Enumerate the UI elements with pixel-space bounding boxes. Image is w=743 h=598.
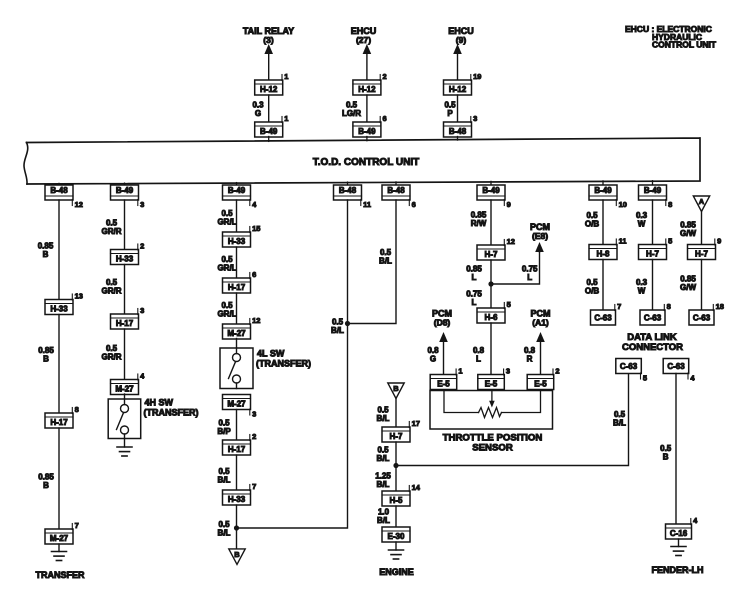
label 0.75 L: [522, 265, 538, 283]
svg-text:11: 11: [363, 200, 371, 209]
node PCM (A1): [531, 309, 551, 328]
node EHCU (27): [351, 26, 377, 45]
wire B-48/12 to H-33/13: [58, 200, 60, 300]
label 0.85 G/W: [680, 221, 696, 239]
arrow to PCM (E8): [535, 242, 544, 252]
wire B-49/8 to H-7/5: [652, 200, 654, 245]
svg-text:H-7: H-7: [646, 249, 659, 258]
svg-text:B/L: B/L: [331, 326, 344, 335]
svg-text:3: 3: [506, 366, 510, 375]
svg-text:GR/L: GR/L: [217, 310, 236, 319]
arrow to EHCU 27: [363, 44, 372, 80]
connector E-5 pin 1: [430, 366, 462, 389]
svg-text:12: 12: [75, 200, 83, 209]
connector H-33 pin 2: [111, 241, 145, 264]
svg-text:L: L: [476, 355, 481, 364]
svg-text:H-6: H-6: [485, 313, 498, 322]
junction on B-48/11 riser: [345, 321, 350, 326]
svg-text:17: 17: [412, 419, 420, 428]
node PCM (E8): [530, 222, 550, 241]
svg-text:7: 7: [617, 302, 621, 311]
svg-text:M-27: M-27: [227, 329, 246, 338]
svg-text:TRANSFER: TRANSFER: [36, 570, 85, 580]
switch 4H SW (TRANSFER): [108, 399, 141, 439]
connector B-49 pin 9: [477, 185, 511, 209]
svg-text:4: 4: [690, 373, 695, 382]
label 0.5 GR/R: [102, 278, 122, 296]
label 0.3 G: [252, 101, 264, 119]
connector H-17 pin 2: [223, 432, 257, 455]
svg-text:GR/R: GR/R: [102, 227, 122, 236]
connector B-49 pin 4: [223, 185, 258, 209]
svg-text:H-33: H-33: [228, 237, 246, 246]
svg-text:L: L: [472, 273, 477, 282]
label 0.5 B/L: [331, 318, 344, 336]
svg-text:L: L: [527, 273, 532, 282]
net B triangle (engine column): [388, 383, 404, 399]
svg-text:1: 1: [284, 72, 288, 81]
wire H-5 to E-30: [395, 506, 397, 527]
connector E-5 pin 2: [527, 366, 559, 389]
svg-text:H-5: H-5: [390, 496, 403, 505]
wire H-33 to triangle B: [236, 505, 238, 549]
svg-text:B-49: B-49: [358, 127, 376, 136]
svg-text:B/L: B/L: [377, 454, 390, 463]
label 0.5 GR/L: [217, 301, 236, 319]
svg-text:4L SW: 4L SW: [257, 349, 285, 359]
connector B-48 pin 6: [382, 185, 416, 209]
sensor internal wiring: [444, 391, 541, 413]
svg-text:L: L: [472, 298, 477, 307]
svg-text:B-49: B-49: [116, 186, 134, 195]
label 0.5 LG/R: [342, 101, 361, 119]
connector H-17 pin 3: [111, 306, 145, 329]
svg-text:C-63: C-63: [667, 362, 685, 371]
svg-text:LG/R: LG/R: [342, 109, 361, 118]
connector B-48 pin 11: [334, 185, 372, 209]
wire triangle A to H-7/9: [701, 212, 703, 245]
wire triangle B to H-7/17: [395, 399, 397, 428]
svg-text:B/P: B/P: [217, 427, 231, 436]
svg-text:O/B: O/B: [585, 220, 599, 229]
wire H-33 to H-17: [58, 315, 60, 414]
svg-text:C-63: C-63: [644, 314, 662, 323]
wire H-7 to C-63/18: [701, 260, 703, 311]
label 0.5 GR/L: [217, 209, 236, 227]
connector H-33 pin 15: [223, 224, 261, 247]
svg-text:(27): (27): [356, 35, 371, 45]
svg-text:E-5: E-5: [437, 379, 450, 388]
svg-text:5: 5: [668, 236, 672, 245]
label 0.8 G: [427, 346, 439, 364]
connector C-16 pin 4: [666, 516, 699, 539]
svg-text:(TRANSFER): (TRANSFER): [256, 359, 311, 369]
label 0.5 P: [444, 101, 456, 119]
label 0.5 B/P: [217, 419, 231, 437]
connector H-17 pin 8: [45, 405, 79, 428]
label 0.75 L: [466, 290, 482, 308]
wire to ground: [58, 544, 60, 552]
wire M-27 to 4L SW: [236, 339, 238, 349]
wire H-8 to C-63/7: [602, 260, 604, 311]
connector B-48 pin 3: [444, 114, 478, 137]
connector C-63 pin 8: [640, 302, 671, 325]
svg-text:R: R: [527, 355, 533, 364]
stubs connecting connectors to control unit: [59, 137, 653, 187]
svg-text:9: 9: [507, 200, 511, 209]
wire 0.5 LG/R: [366, 95, 368, 122]
svg-text:B: B: [43, 250, 49, 259]
svg-text:H-12: H-12: [260, 85, 278, 94]
connector E-30: [382, 527, 410, 542]
svg-text:(E8): (E8): [532, 231, 548, 241]
svg-text:A: A: [699, 197, 705, 206]
svg-text:H-12: H-12: [449, 85, 467, 94]
wire H-17 to M-27: [236, 293, 238, 324]
connector H-33 pin 7: [223, 482, 257, 505]
svg-text:14: 14: [412, 483, 421, 492]
svg-text:1: 1: [284, 114, 288, 123]
svg-text:B-49: B-49: [228, 186, 246, 195]
wire H-17 to M-27: [58, 428, 60, 529]
label 0.85 R/W: [471, 211, 487, 229]
label 0.5 B/L: [377, 406, 390, 424]
label 0.85 B: [38, 346, 54, 364]
label 0.85 G/W: [680, 275, 696, 293]
svg-text:E-5: E-5: [485, 379, 498, 388]
svg-text:CONNECTOR: CONNECTOR: [622, 342, 683, 353]
wire junction to C-63/5: [396, 374, 629, 466]
svg-text:B-48: B-48: [339, 186, 357, 195]
svg-text:B/L: B/L: [377, 516, 390, 525]
T.O.D. CONTROL UNIT box: [24, 138, 700, 184]
svg-text:4: 4: [693, 516, 698, 525]
svg-text:GR/R: GR/R: [102, 287, 122, 296]
wire 0.5 P: [457, 95, 459, 122]
wire branch to PCM E8: [491, 250, 540, 284]
wire H-33 to H-17: [124, 265, 126, 315]
wiper arrow: [489, 391, 495, 408]
connector C-63 pin 7: [591, 302, 622, 325]
wire B-48/6 down and left: [348, 200, 397, 324]
label 0.5 O/B: [585, 211, 599, 229]
svg-text:6: 6: [252, 270, 256, 279]
label 0.5 GR/L: [217, 255, 236, 273]
svg-text:B/L: B/L: [218, 476, 231, 485]
svg-text:ENGINE: ENGINE: [379, 567, 414, 577]
connector H-17 pin 6: [223, 270, 257, 293]
wire 0.3 G: [268, 95, 270, 122]
svg-text:3: 3: [252, 409, 256, 418]
connector M-27 pin 12: [223, 316, 261, 339]
switch 4L SW (TRANSFER): [220, 348, 253, 389]
label 0.5 B/L: [379, 248, 392, 266]
wire M-27 to H-17/2: [236, 410, 238, 441]
connector B-49 pin 10: [589, 185, 627, 209]
svg-text:E-5: E-5: [534, 379, 547, 388]
wire M-27 to 4H SW: [124, 394, 126, 399]
svg-text:2: 2: [383, 72, 387, 81]
connector H-33 pin 13: [45, 291, 83, 314]
label 0.5 B: [660, 444, 672, 462]
label 0.5 B/L: [613, 410, 626, 428]
label 0.5 B/L: [218, 467, 231, 485]
svg-text:5: 5: [507, 300, 511, 309]
svg-text:8: 8: [75, 405, 79, 414]
svg-text:2: 2: [555, 366, 559, 375]
label 0.8 R: [524, 346, 536, 364]
svg-text:GR/L: GR/L: [217, 264, 236, 273]
label 0.5 B/L: [218, 520, 231, 538]
wire H-6 to E-5/3: [490, 323, 492, 375]
svg-text:H-12: H-12: [358, 85, 376, 94]
wire B-49/10 to H-8/11: [602, 200, 604, 245]
connector M-27 pin 3: [223, 395, 257, 419]
svg-text:M-27: M-27: [115, 384, 134, 393]
svg-text:G/W: G/W: [680, 283, 696, 292]
svg-text:FENDER-LH: FENDER-LH: [652, 565, 704, 575]
svg-text:(D8): (D8): [434, 318, 451, 328]
svg-text:B-48: B-48: [387, 186, 405, 195]
svg-text:1: 1: [458, 366, 462, 375]
label 0.5 O/B: [585, 278, 599, 296]
svg-text:(A1): (A1): [532, 318, 549, 328]
svg-text:B: B: [43, 481, 49, 490]
svg-text:H-7: H-7: [695, 249, 708, 258]
svg-text:GR/L: GR/L: [217, 218, 236, 227]
svg-text:4: 4: [252, 200, 257, 209]
wire H-7 to H-6: [490, 260, 492, 308]
svg-text:3: 3: [140, 306, 144, 315]
svg-text:6: 6: [412, 200, 416, 209]
svg-text:C-63: C-63: [693, 314, 711, 323]
svg-text:7: 7: [75, 521, 79, 530]
label 1.0 B/L: [377, 508, 390, 526]
connector H-7 pin 9: [688, 236, 722, 259]
ground ENGINE: [389, 550, 404, 559]
label 0.85 B: [38, 473, 54, 491]
svg-text:18: 18: [716, 302, 724, 311]
wire to fender ground: [678, 539, 680, 547]
svg-text:C-63: C-63: [594, 314, 612, 323]
svg-text:9: 9: [717, 236, 721, 245]
label 1.25 B/L: [375, 472, 391, 490]
svg-text:B-49: B-49: [644, 186, 662, 195]
svg-text:P: P: [447, 109, 453, 118]
svg-text:W: W: [638, 287, 646, 296]
connector H-12 pin 2: [353, 72, 387, 95]
svg-text:CONTROL UNIT: CONTROL UNIT: [652, 40, 717, 50]
arrow to TAIL RELAY: [264, 44, 273, 80]
label THROTTLE POSITION SENSOR: [443, 433, 543, 454]
wire H-7 to H-5: [395, 442, 397, 491]
svg-text:12: 12: [252, 316, 260, 325]
svg-text:G: G: [430, 355, 436, 364]
wire 4H SW to ground: [124, 439, 126, 448]
svg-text:7: 7: [252, 482, 256, 491]
node EHCU (9): [448, 26, 474, 45]
svg-text:B-48: B-48: [50, 186, 68, 195]
svg-text:M-27: M-27: [50, 534, 69, 543]
connector B-49 pin 6: [353, 114, 387, 137]
svg-text:SENSOR: SENSOR: [472, 443, 513, 454]
connector H-7 pin 5: [639, 236, 673, 259]
legend EHCU definition: [625, 24, 717, 50]
svg-text:O/B: O/B: [585, 287, 599, 296]
wire H-33 to H-17: [236, 247, 238, 278]
svg-text:H-33: H-33: [228, 495, 246, 504]
svg-text:13: 13: [75, 291, 83, 300]
svg-text:H-8: H-8: [597, 249, 610, 258]
connector M-27 pin 4: [111, 371, 146, 394]
svg-text:H-7: H-7: [390, 432, 403, 441]
connector H-7 pin 12: [477, 237, 515, 260]
svg-text:H-33: H-33: [50, 304, 68, 313]
svg-text:B-49: B-49: [482, 186, 500, 195]
connector H-5 pin 14: [382, 483, 421, 506]
junction PCM E8 branch: [488, 281, 493, 286]
svg-text:W: W: [638, 220, 646, 229]
svg-text:B: B: [393, 384, 399, 393]
svg-text:10: 10: [619, 200, 627, 209]
svg-text:B: B: [43, 355, 49, 364]
net A triangle: [693, 196, 709, 212]
svg-text:H-17: H-17: [50, 418, 68, 427]
wire junction to B-48/11 riser: [237, 200, 348, 528]
svg-text:4H SW: 4H SW: [145, 398, 174, 408]
junction engine column to DLC branch: [393, 463, 398, 468]
svg-text:B: B: [663, 453, 669, 462]
connector C-63 pin 4: [663, 359, 695, 383]
svg-text:B/L: B/L: [613, 419, 626, 428]
ground FENDER-LH: [671, 547, 686, 556]
wire B-49/9 to H-7/12: [490, 200, 492, 245]
svg-text:8: 8: [667, 302, 671, 311]
ground TRANSFER: [52, 552, 67, 561]
wire C-63/4 to C-16: [675, 374, 677, 525]
net B triangle (lower left): [229, 549, 245, 565]
svg-text:15: 15: [252, 224, 260, 233]
svg-text:12: 12: [507, 237, 515, 246]
connector H-8 pin 11: [589, 236, 627, 259]
svg-text:(3): (3): [263, 35, 274, 45]
svg-text:19: 19: [473, 72, 481, 81]
svg-text:8: 8: [668, 200, 672, 209]
wire H-7 to C-63/8: [652, 260, 654, 311]
svg-text:G/W: G/W: [680, 229, 696, 238]
ground 4H SW: [117, 447, 132, 456]
svg-text:B-49: B-49: [260, 127, 278, 136]
connector E-5 pin 3: [478, 366, 510, 389]
connector H-12 pin 19: [444, 72, 482, 95]
svg-text:G: G: [255, 109, 261, 118]
label 0.85 B: [38, 242, 54, 260]
label 4H SW (TRANSFER): [144, 398, 199, 418]
connector B-49 pin 3: [111, 185, 145, 209]
svg-text:E-30: E-30: [388, 532, 405, 541]
label 0.5 B/L: [377, 446, 390, 464]
svg-text:11: 11: [619, 236, 627, 245]
svg-text:H-17: H-17: [116, 319, 134, 328]
svg-text:B-48: B-48: [449, 127, 467, 136]
arrow to PCM (D8): [439, 332, 448, 375]
svg-text:T.O.D. CONTROL UNIT: T.O.D. CONTROL UNIT: [313, 157, 419, 168]
svg-text:H-7: H-7: [485, 250, 498, 259]
svg-text:B/L: B/L: [218, 529, 231, 538]
arrow to EHCU 9: [453, 44, 462, 80]
svg-text:C-63: C-63: [620, 362, 638, 371]
connector B-48 pin 12: [45, 185, 83, 209]
svg-text:B/L: B/L: [377, 480, 390, 489]
svg-text:B-49: B-49: [594, 186, 612, 195]
svg-text:H-17: H-17: [228, 283, 246, 292]
connector H-7 pin 17: [382, 419, 420, 442]
svg-text:H-33: H-33: [116, 254, 134, 263]
svg-text:B/L: B/L: [379, 257, 392, 266]
svg-text:2: 2: [252, 432, 256, 441]
wire H-17 to H-33/7: [236, 455, 238, 490]
svg-text:4: 4: [140, 371, 145, 380]
svg-text:(9): (9): [456, 35, 467, 45]
svg-text:M-27: M-27: [227, 399, 246, 408]
arrow to PCM (A1): [536, 332, 545, 375]
svg-text:H-17: H-17: [228, 445, 246, 454]
svg-text:B: B: [234, 550, 240, 559]
wire B-49/4 to H-33/15: [236, 200, 238, 232]
connector H-6 pin 5: [477, 300, 511, 323]
svg-text:3: 3: [140, 200, 144, 209]
throttle position sensor box: [430, 391, 553, 430]
node PCM (D8): [432, 309, 452, 328]
connector H-12 pin 1: [255, 72, 289, 95]
label 0.3 W: [636, 211, 648, 229]
wire B-49/3 to H-33/2: [124, 200, 126, 250]
label 0.5 GR/R: [102, 344, 122, 362]
resistor element: [479, 408, 502, 418]
label DATA LINK CONNECTOR: [622, 332, 683, 353]
svg-text:B/L: B/L: [377, 414, 390, 423]
wire H-17 to M-27: [124, 329, 126, 380]
svg-text:R/W: R/W: [471, 219, 487, 228]
svg-text:C-16: C-16: [670, 529, 688, 538]
node TAIL RELAY (3): [243, 26, 294, 45]
svg-text:2: 2: [140, 241, 144, 250]
svg-text:6: 6: [383, 114, 387, 123]
svg-text:3: 3: [473, 114, 477, 123]
label 0.3 W: [636, 278, 648, 296]
connector M-27 pin 7: [45, 521, 79, 544]
svg-text:5: 5: [643, 373, 647, 382]
label 0.85 L: [466, 265, 482, 283]
label 0.5 GR/R: [102, 219, 122, 237]
connector C-63 pin 5: [616, 359, 647, 383]
svg-text:(TRANSFER): (TRANSFER): [144, 408, 199, 418]
label 0.8 L: [473, 346, 485, 364]
svg-text:GR/R: GR/R: [102, 353, 122, 362]
connector B-49 pin 1: [255, 114, 289, 137]
wire to engine ground: [395, 542, 397, 550]
junction col3 / col4 feed: [234, 525, 239, 530]
connector C-63 pin 18: [689, 302, 724, 325]
connector B-49 pin 8: [639, 185, 673, 209]
label 4L SW (TRANSFER): [256, 349, 311, 369]
